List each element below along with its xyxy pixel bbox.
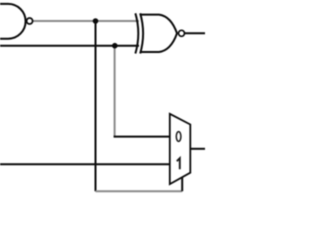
wire: mux output to right edge <box>190 148 205 150</box>
xnor U2 extra input arc <box>135 13 138 53</box>
multiplexer MUX1 trapezoid <box>170 114 191 184</box>
wire: bottom gray to mux select <box>96 190 183 192</box>
node A junction dot <box>93 18 99 24</box>
xnor gate U2 body <box>140 13 177 53</box>
nand U1 output bubble <box>27 18 33 24</box>
mux label 1 <box>177 158 180 169</box>
xnor U2 output bubble <box>179 30 185 36</box>
wire: NAND output to XNOR top input (gray) <box>33 20 139 22</box>
node B junction dot <box>112 43 118 49</box>
wire: XNOR output to right edge <box>184 32 205 34</box>
wire: black horizontal into mux 0 input <box>114 136 170 138</box>
wire: mux 1 input from left edge <box>0 163 170 165</box>
mux select stub <box>181 178 183 192</box>
mux label 0 <box>176 132 181 142</box>
wire: vertical black from node A down to bottom <box>95 21 97 191</box>
nand gate U1 (partially cut at left edge) <box>0 4 26 39</box>
wire: XNOR bottom input from left edge (black) <box>0 45 139 47</box>
wire: gray vertical from node B down to mux 0-input corner <box>114 47 116 137</box>
